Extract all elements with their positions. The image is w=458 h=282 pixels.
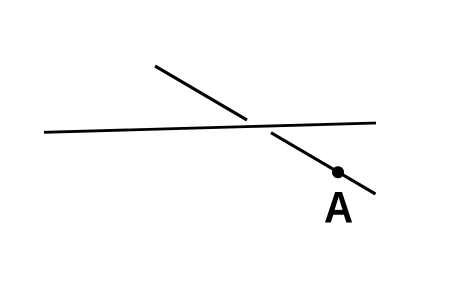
label A [325,192,352,223]
point A dot [332,166,344,178]
diagonal line upper segment [155,66,247,120]
diagonal line lower segment [271,133,376,194]
horizontal line [44,123,376,132]
